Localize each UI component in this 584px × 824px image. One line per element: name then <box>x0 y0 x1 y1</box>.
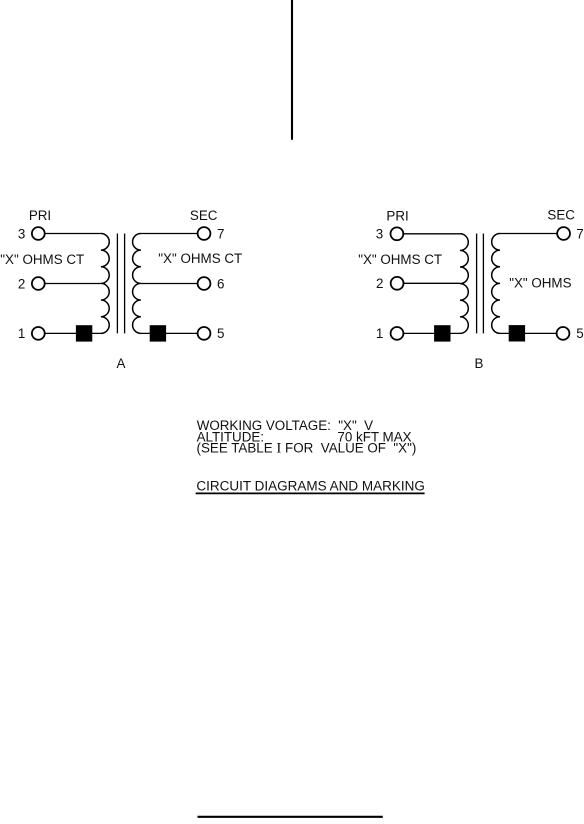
svg-text:5: 5 <box>576 326 583 341</box>
pin 2 terminal (B) <box>391 277 404 290</box>
title underline <box>196 492 425 494</box>
pin 3 terminal (B) <box>391 227 404 240</box>
svg-text:SEC: SEC <box>547 208 575 223</box>
wire pin5 to secondary (A) <box>141 332 198 334</box>
core line right (B) <box>482 234 484 334</box>
wire pin1 to primary (B) <box>403 332 460 334</box>
svg-text:3: 3 <box>18 226 25 241</box>
transformer B <box>358 208 584 371</box>
wire pin6 center tap (A) <box>141 283 198 285</box>
svg-text:2: 2 <box>376 276 383 291</box>
primary winding (B) <box>460 234 468 334</box>
pin 1 terminal (B) <box>391 327 404 340</box>
pin 7 terminal (B) <box>557 227 570 240</box>
svg-text:A: A <box>117 356 126 371</box>
svg-text:7: 7 <box>576 226 583 241</box>
svg-text:2: 2 <box>18 276 25 291</box>
svg-text:"X" OHMS CT: "X" OHMS CT <box>0 252 84 267</box>
polarity square on pin1 wire (A) <box>76 325 92 341</box>
transformer A <box>0 208 242 371</box>
core line right (A) <box>124 234 126 334</box>
core line left (A) <box>116 234 118 334</box>
svg-text:PRI: PRI <box>386 208 408 223</box>
svg-text:1: 1 <box>376 326 383 341</box>
svg-text:SEC: SEC <box>190 208 218 223</box>
svg-text:CIRCUIT DIAGRAMS AND MARKING: CIRCUIT DIAGRAMS AND MARKING <box>196 478 425 493</box>
core line left (B) <box>476 234 478 334</box>
wire pin5 to secondary (B) <box>500 332 557 334</box>
svg-text:1: 1 <box>18 326 25 341</box>
svg-text:7: 7 <box>217 226 224 241</box>
svg-text:3: 3 <box>376 227 383 242</box>
fold line (top vertical rule) <box>291 0 293 140</box>
wire pin1 to primary (A) <box>45 332 101 334</box>
wire pin3 to primary (B) <box>403 233 460 235</box>
wire pin7 to secondary (B) <box>500 233 557 235</box>
secondary winding (B) <box>492 234 500 334</box>
svg-text:"X" OHMS CT: "X" OHMS CT <box>158 251 242 266</box>
svg-text:6: 6 <box>217 276 224 291</box>
pin 5 terminal (B) <box>557 327 570 340</box>
polarity square on pin1 wire (B) <box>434 325 450 341</box>
pin 7 terminal (A) <box>198 227 211 240</box>
pin 5 terminal (A) <box>198 327 211 340</box>
svg-text:PRI: PRI <box>29 208 51 223</box>
svg-text:(SEE TABLE I FOR VALUE OF "X: (SEE TABLE I FOR VALUE OF "X") <box>197 440 417 456</box>
pin 3 terminal (A) <box>32 227 45 240</box>
polarity square on pin5 wire (A) <box>150 325 166 341</box>
wire pin7 to secondary (A) <box>141 233 198 235</box>
wire pin2 center tap (A) <box>45 283 101 285</box>
svg-text:B: B <box>475 356 484 371</box>
pin 1 terminal (A) <box>32 327 45 340</box>
pin 6 terminal (A) <box>198 277 211 290</box>
wire pin2 center tap (B) <box>404 282 461 284</box>
primary winding (A) <box>101 234 109 334</box>
bottom border line <box>198 816 383 818</box>
polarity square on pin5 wire (B) <box>509 325 525 341</box>
wire pin3 to primary (A) <box>45 233 101 235</box>
pin 2 terminal (A) <box>32 277 45 290</box>
svg-text:"X" OHMS: "X" OHMS <box>509 275 571 290</box>
svg-text:5: 5 <box>217 326 224 341</box>
secondary winding (A) <box>133 234 141 334</box>
svg-text:"X" OHMS CT: "X" OHMS CT <box>358 252 442 267</box>
